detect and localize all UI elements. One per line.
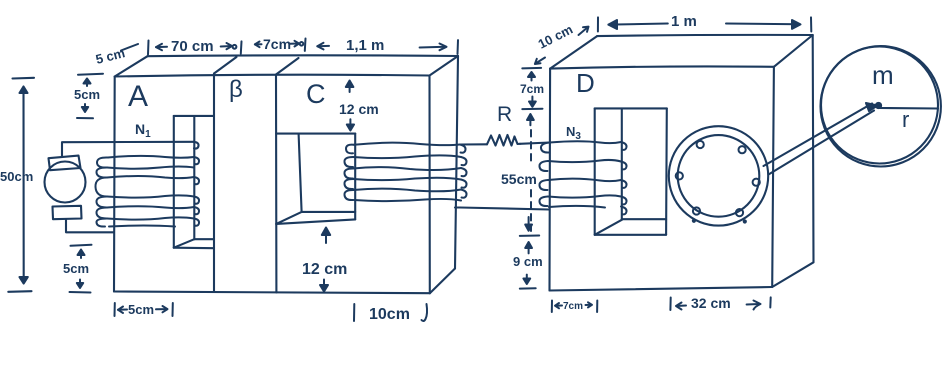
dimension 5cm depth label top-left — [121, 44, 138, 51]
svg-text:10 cm: 10 cm — [536, 22, 576, 52]
dimension 5cm (below motor) — [70, 245, 92, 293]
dimension 5cm bottom of A leg — [115, 303, 173, 316]
coil N3 right loops — [621, 142, 627, 214]
svg-text:5cm: 5cm — [63, 261, 89, 276]
dimension 70cm top — [148, 41, 242, 55]
svg-text:12 cm: 12 cm — [339, 101, 379, 117]
shaft to wheel — [764, 103, 878, 175]
wire C coil to resistor to D — [460, 135, 550, 146]
coil N1 wavy strands — [107, 156, 194, 227]
svg-text:m: m — [872, 60, 894, 90]
coil N2 right loops — [460, 145, 467, 198]
core B/C boundary — [276, 58, 299, 293]
flange inner circle — [678, 135, 760, 217]
svg-text:70 cm: 70 cm — [171, 38, 214, 55]
svg-text:12 cm: 12 cm — [302, 261, 347, 278]
resistor R zigzag — [487, 135, 520, 146]
wheel (mass m, radius r) — [821, 46, 941, 166]
dimension 55cm (left of D, dashed) — [520, 114, 539, 236]
svg-text:1,1 m: 1,1 m — [346, 37, 384, 54]
svg-text:7cm: 7cm — [563, 301, 583, 312]
dimension 50cm left vertical arrow — [8, 78, 34, 292]
coil N3 wavy strands — [548, 141, 621, 207]
dimension 12cm top of C — [346, 81, 354, 131]
svg-text:5 cm: 5 cm — [94, 45, 126, 67]
flange outer circle — [669, 126, 768, 225]
wire bottom C coil to D — [455, 208, 549, 210]
coil N1 left loops — [95, 157, 108, 226]
svg-text:7cm: 7cm — [263, 36, 291, 52]
window of core D — [595, 108, 667, 234]
dimension 7cm bottom of D — [552, 301, 598, 313]
dimension 1.1m top — [317, 40, 458, 54]
dimension 12cm bottom of C — [320, 228, 330, 292]
svg-text:9 cm: 9 cm — [513, 254, 543, 269]
svg-text:N3: N3 — [566, 124, 581, 142]
svg-text:50cm: 50cm — [0, 169, 33, 184]
svg-text:5cm: 5cm — [74, 87, 100, 102]
flange bolts — [676, 141, 760, 223]
svg-text:C: C — [306, 79, 326, 109]
dimension 1m top of D — [598, 17, 811, 31]
svg-text:A: A — [128, 80, 148, 113]
svg-text:7cm: 7cm — [520, 82, 544, 96]
svg-text:55cm: 55cm — [501, 171, 537, 187]
svg-text:r: r — [902, 107, 909, 132]
motor M (source) — [45, 156, 86, 220]
svg-text:10cm: 10cm — [369, 306, 410, 323]
coil N3 left loops — [539, 143, 549, 207]
window of core C — [276, 134, 355, 224]
core top face (3D) — [115, 55, 458, 293]
svg-text:5cm: 5cm — [128, 302, 154, 317]
wire motor bottom — [66, 220, 114, 233]
svg-text:R: R — [497, 103, 512, 126]
dimension 7cm top — [255, 39, 306, 51]
core B boundary left — [214, 57, 237, 292]
dimension 10cm bottom of C — [354, 304, 427, 321]
coil N1 right loops — [194, 157, 199, 226]
dimension 32cm bottom of D — [670, 297, 770, 310]
svg-text:N1: N1 — [135, 121, 151, 140]
wire motor top to coil N1 — [62, 142, 199, 157]
coil N2 wavy strands (C right leg) — [353, 143, 461, 201]
svg-text:β: β — [229, 76, 243, 103]
window of core A — [174, 116, 214, 248]
svg-text:32 cm: 32 cm — [691, 295, 731, 311]
core D front face — [550, 66, 774, 290]
core A front face outline — [114, 75, 430, 294]
coil N2 left loops — [344, 145, 354, 200]
svg-text:1 m: 1 m — [671, 13, 697, 30]
svg-text:D: D — [576, 68, 595, 98]
core D top face — [550, 35, 813, 287]
dimension 7cm (left of D top) — [522, 68, 542, 109]
dimension 5cm (A top left, vertical) — [77, 74, 103, 119]
dimension 9cm (left of D bottom) — [520, 242, 536, 289]
